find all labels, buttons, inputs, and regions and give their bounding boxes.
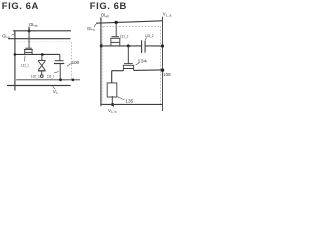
- wire DL_m label leader stub: [28, 27, 30, 31]
- label 133_2: [145, 33, 154, 38]
- node junction dot GL/gate lead: [115, 21, 118, 24]
- wire left vertical branch of DL_m (6A): [14, 31, 16, 91]
- wire capacitor line VL (bottom bus, 6A): [7, 85, 71, 87]
- capacitor 133_2: [142, 40, 146, 53]
- wire node line 108: [101, 45, 141, 47]
- pixel boundary box 6A (dashed): [17, 42, 71, 79]
- svg-text:132_1: 132_1: [31, 73, 41, 78]
- wire 133_2 leader: [145, 37, 146, 40]
- node junction dot LC branch: [41, 53, 44, 56]
- wire GL_n label leader: [12, 34, 15, 36]
- wire gate line GL_n (horizontal bus, 6A): [8, 38, 71, 40]
- node junction dot cap/VL_a: [161, 44, 164, 47]
- label VL: [53, 89, 59, 95]
- node leader dot on DL_m line: [28, 29, 31, 32]
- label 134: [137, 59, 147, 64]
- wire 108 leader: [67, 63, 72, 67]
- wire node line: [15, 53, 60, 55]
- svg-text:131_1: 131_1: [21, 62, 30, 67]
- liquid crystal element 132_1: [38, 55, 46, 78]
- wire data line DL_m (horizontal bus, 6A): [13, 30, 71, 32]
- node GL_n label (6B left): [87, 26, 95, 32]
- node junction dot DL/source wire: [100, 44, 103, 47]
- svg-text:FIG. 6A: FIG. 6A: [2, 0, 39, 11]
- label 133_1: [47, 73, 55, 78]
- wire power line VL_a: [162, 17, 164, 111]
- wire 134 leader: [136, 63, 139, 65]
- wire gate lead 131_2: [115, 22, 117, 36]
- node junction dot 134drain/VL_a: [161, 68, 164, 71]
- wire gate lead 134: [127, 46, 129, 64]
- label 108 (6B): [163, 72, 171, 77]
- wire gate lead of transistor 131_1: [28, 31, 30, 48]
- label VL_a: [163, 12, 172, 18]
- svg-text:108: 108: [72, 60, 80, 65]
- transistor 131_2: [110, 37, 120, 46]
- node junction dot DL branch / node line: [14, 53, 17, 56]
- node junction dot capacitor/VL: [59, 78, 62, 81]
- wire LED cathode stub: [111, 96, 113, 104]
- node leader dot VL_b: [111, 103, 114, 106]
- svg-text:131_2: 131_2: [120, 34, 129, 39]
- label VL_b: [108, 108, 117, 114]
- wire 135 leader: [117, 97, 124, 100]
- capacitor 133_1: [54, 54, 64, 79]
- wire 134 source to LED: [112, 70, 124, 72]
- svg-text:133_1: 133_1: [47, 73, 55, 78]
- wire 131_1 leader: [24, 56, 27, 62]
- label 132_1: [31, 73, 41, 78]
- wire data line DL_m (vertical): [100, 17, 102, 106]
- wire VL_b line (bottom): [101, 103, 162, 105]
- wire common line (upper, 6A bottom): [16, 79, 80, 81]
- svg-text:135: 135: [125, 99, 134, 104]
- light-emitting element 135: [107, 83, 117, 97]
- transistor 134: [123, 64, 135, 71]
- svg-text:133_2: 133_2: [145, 33, 154, 38]
- transistor 131_1: [24, 48, 33, 54]
- wire VL_b leader: [113, 106, 115, 107]
- svg-text:108: 108: [163, 72, 171, 77]
- node leader dot 108 label (6A): [72, 78, 75, 81]
- label 135: [125, 99, 134, 104]
- wire gate line GL_n: [96, 21, 162, 23]
- node DL_m label (6B top): [101, 13, 110, 19]
- pixel boundary box 6B (dashed): [103, 26, 161, 104]
- svg-text:FIG. 6B: FIG. 6B: [90, 0, 127, 11]
- label GL_n (6A gate line): [2, 33, 10, 39]
- label DL_m (6A data line): [29, 22, 38, 28]
- wire 134 drain to VL_a: [134, 69, 163, 72]
- label 131_1: [21, 62, 30, 67]
- wire GL_n leader: [94, 24, 96, 27]
- label 108 (6A): [72, 60, 80, 65]
- wire 133_1 leader: [54, 72, 59, 74]
- node junction dot gate134 branch: [127, 44, 130, 47]
- wire VL leader: [53, 86, 56, 89]
- label 131_2: [120, 34, 129, 39]
